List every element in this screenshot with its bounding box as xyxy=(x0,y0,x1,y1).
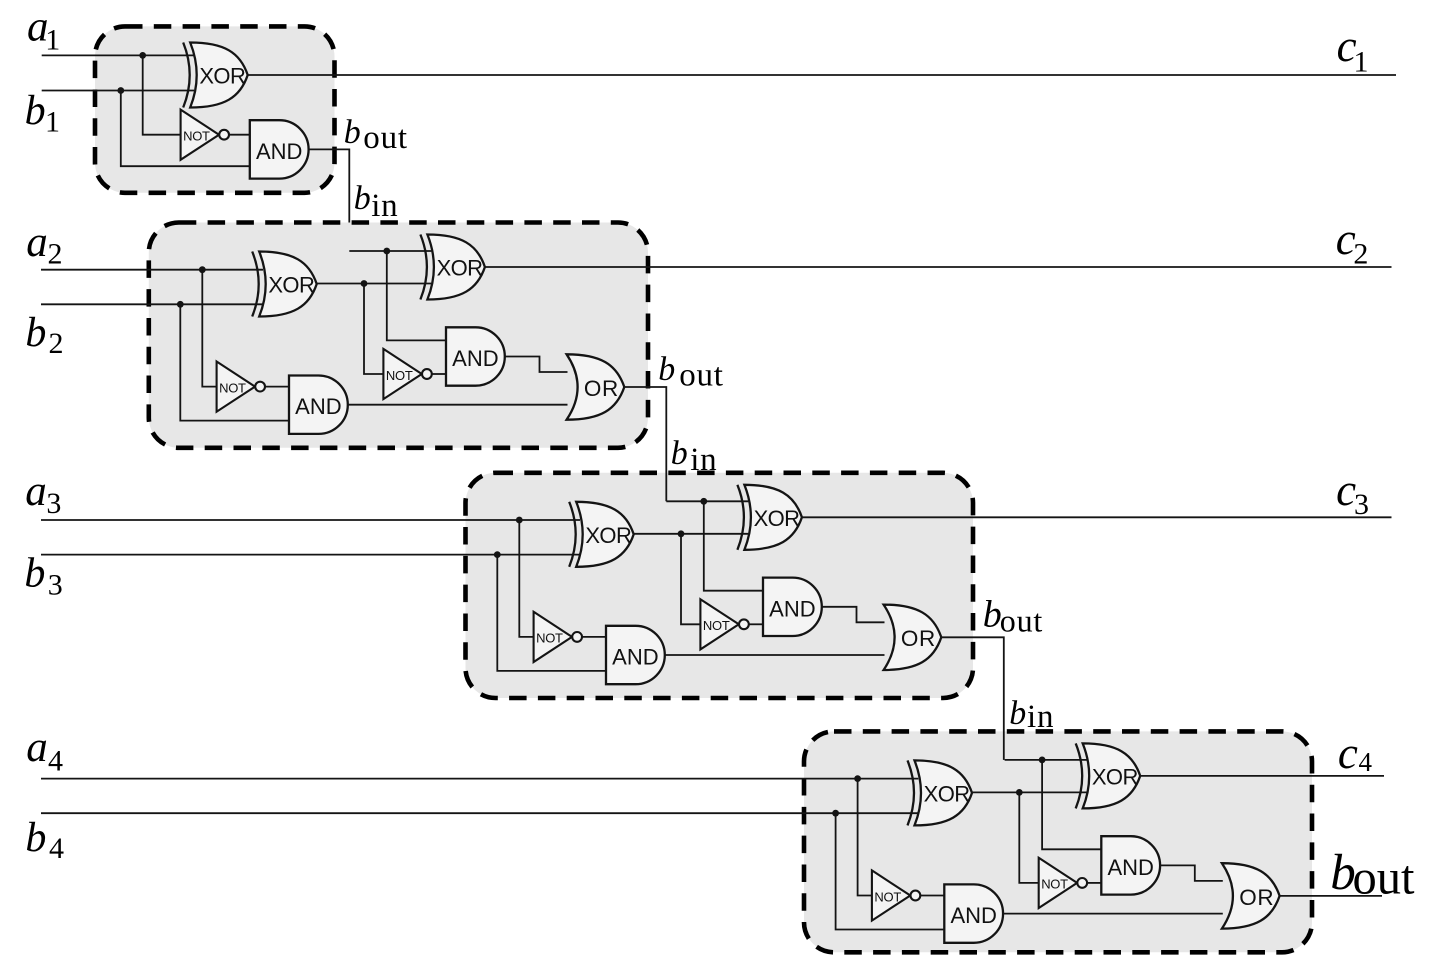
wire XOR3a-out branch to NOT3b xyxy=(681,534,700,625)
and AND1 (stage1) xyxy=(250,120,309,178)
wire a2 branch to NOT2a xyxy=(202,270,216,387)
svg-text:NOT: NOT xyxy=(219,380,246,395)
svg-text:NOT: NOT xyxy=(703,618,730,633)
svg-text:1: 1 xyxy=(45,106,60,139)
not NOT3a xyxy=(534,612,582,662)
svg-text:XOR: XOR xyxy=(268,273,314,298)
svg-text:XOR: XOR xyxy=(1092,765,1138,790)
svg-text:XOR: XOR xyxy=(924,782,970,807)
wire b4 branch to AND4a xyxy=(836,813,945,929)
wire XOR2a out to XOR2b xyxy=(316,283,431,285)
wire b2 input xyxy=(41,303,263,305)
svg-text:XOR: XOR xyxy=(437,256,483,281)
node a4 junction xyxy=(854,775,861,782)
wire AND2b out jog to OR2 xyxy=(504,357,567,373)
svg-text:out: out xyxy=(1353,852,1416,905)
wire XOR4a out to XOR4b xyxy=(972,791,1087,793)
svg-text:XOR: XOR xyxy=(585,523,631,548)
xor XOR3b xyxy=(737,485,802,550)
wire a3 input xyxy=(41,519,580,521)
wire AND3a out to OR3 xyxy=(665,654,885,656)
wire NOT4b to AND4b xyxy=(1087,882,1102,884)
wire b4 input xyxy=(41,812,918,814)
wire c1 output (XOR1 to c1) xyxy=(247,74,1396,76)
node a2 junction xyxy=(199,266,206,273)
not NOT4a xyxy=(872,870,920,920)
svg-text:NOT: NOT xyxy=(536,631,563,646)
wire AND4a out to OR4 xyxy=(1003,913,1223,915)
wire a1 input xyxy=(42,54,194,56)
wire NOT3a to AND3a xyxy=(582,636,606,638)
wire c3 output (XOR3b to c3) xyxy=(801,516,1391,518)
not NOT2b xyxy=(383,349,431,399)
svg-text:AND: AND xyxy=(1107,855,1153,880)
svg-text:1: 1 xyxy=(1354,45,1369,78)
wire a3 branch to NOT3a xyxy=(519,520,533,637)
svg-text:in: in xyxy=(371,188,398,224)
svg-text:AND: AND xyxy=(950,903,996,928)
node b_in junction xyxy=(383,248,390,255)
wire b_out stage2 to b_in stage3 xyxy=(624,387,666,501)
and AND2b xyxy=(446,327,505,385)
svg-text:OR: OR xyxy=(584,376,619,401)
svg-text:in: in xyxy=(690,442,717,478)
svg-text:1: 1 xyxy=(45,24,60,57)
xor XOR4b xyxy=(1076,743,1141,808)
wire NOT2b to AND2b xyxy=(431,373,446,375)
wire a1 branch to NOT1 xyxy=(143,55,181,134)
svg-text:OR: OR xyxy=(901,626,936,651)
svg-text:NOT: NOT xyxy=(386,368,413,383)
wire XOR4a-out branch to NOT4b xyxy=(1019,792,1038,883)
svg-text:AND: AND xyxy=(769,596,815,621)
or OR3 xyxy=(884,605,942,670)
svg-text:XOR: XOR xyxy=(199,64,245,89)
wire b_in horizontal to XOR3b xyxy=(666,500,748,502)
svg-text:3: 3 xyxy=(48,569,63,602)
and AND2a xyxy=(289,376,348,434)
svg-text:4: 4 xyxy=(1359,747,1373,777)
node XOR3a-out junction xyxy=(678,530,685,537)
svg-text:b: b xyxy=(1009,695,1026,732)
svg-text:OR: OR xyxy=(1239,885,1274,910)
wire b_in horizontal to XOR4b xyxy=(1005,759,1087,761)
wire AND4b out jog to OR4 xyxy=(1160,865,1223,881)
or OR2 xyxy=(567,354,625,419)
svg-text:4: 4 xyxy=(48,745,63,778)
not NOT2a xyxy=(217,362,265,412)
svg-text:b: b xyxy=(344,114,361,151)
xor XOR3a xyxy=(569,502,634,567)
and AND4b xyxy=(1101,836,1160,894)
svg-text:a: a xyxy=(25,468,47,515)
svg-text:4: 4 xyxy=(49,832,64,865)
svg-text:b: b xyxy=(25,310,46,356)
svg-text:2: 2 xyxy=(1353,238,1368,271)
stage 2 box (full subtractor) xyxy=(149,223,648,448)
and AND4a xyxy=(944,884,1003,942)
svg-text:AND: AND xyxy=(295,394,341,419)
not NOT3b xyxy=(700,599,748,649)
svg-text:NOT: NOT xyxy=(874,889,901,904)
svg-text:out: out xyxy=(679,358,724,394)
wire b_in horizontal to XOR2b xyxy=(349,250,431,252)
wire a4 branch to NOT4a xyxy=(858,779,872,896)
or OR4 xyxy=(1222,863,1280,928)
wire b_in to AND2b xyxy=(387,251,446,340)
stage 1 box (half subtractor) xyxy=(95,26,335,192)
xor XOR2a xyxy=(252,252,317,317)
wire XOR3a out to XOR3b xyxy=(633,533,748,535)
svg-text:in: in xyxy=(1027,699,1054,735)
svg-text:3: 3 xyxy=(46,487,61,520)
svg-text:b: b xyxy=(25,815,46,861)
svg-text:NOT: NOT xyxy=(183,129,210,144)
wire a2 input xyxy=(41,269,263,271)
wire b_in to AND4b xyxy=(1042,760,1101,849)
node a3 junction xyxy=(516,517,523,524)
wire AND3b out jog to OR3 xyxy=(821,607,884,623)
wire NOT4a to AND4a xyxy=(920,895,944,897)
svg-text:b: b xyxy=(671,435,688,472)
wire b3 input xyxy=(41,554,580,556)
node a1 junction xyxy=(139,52,146,59)
svg-text:b: b xyxy=(24,551,45,597)
stage 3 box (full subtractor) xyxy=(466,473,974,698)
svg-text:a: a xyxy=(26,724,48,771)
wire b2 branch to AND2a xyxy=(180,304,289,420)
node XOR4a-out junction xyxy=(1016,789,1023,796)
svg-text:c: c xyxy=(1338,728,1358,778)
svg-text:NOT: NOT xyxy=(1041,877,1068,892)
wire b_out stage3 to b_in stage4 xyxy=(941,637,1004,760)
wire c4 output (XOR4b to c4) xyxy=(1140,775,1384,777)
svg-text:AND: AND xyxy=(452,346,498,371)
svg-text:b: b xyxy=(25,88,46,134)
wire b1 input xyxy=(42,90,194,92)
node b2 junction xyxy=(177,301,184,308)
svg-text:2: 2 xyxy=(49,327,64,360)
wire NOT3b to AND3b xyxy=(748,623,763,625)
node b4 junction xyxy=(832,810,839,817)
wire c2 output (XOR2b to c2) xyxy=(484,266,1391,268)
wire NOT1 to AND1 xyxy=(229,134,250,136)
wire AND1 out to b_out corner xyxy=(308,149,349,251)
xor XOR1 (stage1) xyxy=(183,43,248,108)
wire b_in to AND3b xyxy=(704,501,763,590)
svg-text:out: out xyxy=(363,120,408,156)
svg-text:XOR: XOR xyxy=(754,506,800,531)
and AND3b xyxy=(763,578,822,636)
svg-text:AND: AND xyxy=(612,645,658,670)
stage 4 box (full subtractor) xyxy=(804,731,1312,952)
wire b3 branch to AND3a xyxy=(497,555,606,671)
svg-text:b: b xyxy=(658,351,675,388)
xor XOR2b xyxy=(420,235,485,300)
node b_in junction xyxy=(700,498,707,505)
node XOR2a-out junction xyxy=(361,280,368,287)
wire AND2a out to OR2 xyxy=(348,404,568,406)
svg-text:2: 2 xyxy=(48,238,63,271)
wire b_out final xyxy=(1280,895,1382,897)
not NOT1 (stage1) xyxy=(181,110,229,160)
wire b1 branch to AND1 xyxy=(121,91,250,167)
and AND3a xyxy=(606,626,665,684)
wire NOT2a to AND2a xyxy=(265,386,289,388)
svg-text:3: 3 xyxy=(1354,488,1369,521)
svg-text:out: out xyxy=(1000,603,1043,639)
svg-text:a: a xyxy=(26,219,48,266)
not NOT4b xyxy=(1039,858,1087,908)
svg-text:AND: AND xyxy=(256,139,302,164)
wire XOR2a-out branch to NOT2b xyxy=(364,284,383,375)
node b1 junction xyxy=(117,87,124,94)
wire a4 input xyxy=(41,778,918,780)
xor XOR4a xyxy=(908,760,973,825)
node b_in junction xyxy=(1039,757,1046,764)
svg-text:b: b xyxy=(354,180,371,217)
node b3 junction xyxy=(494,551,501,558)
